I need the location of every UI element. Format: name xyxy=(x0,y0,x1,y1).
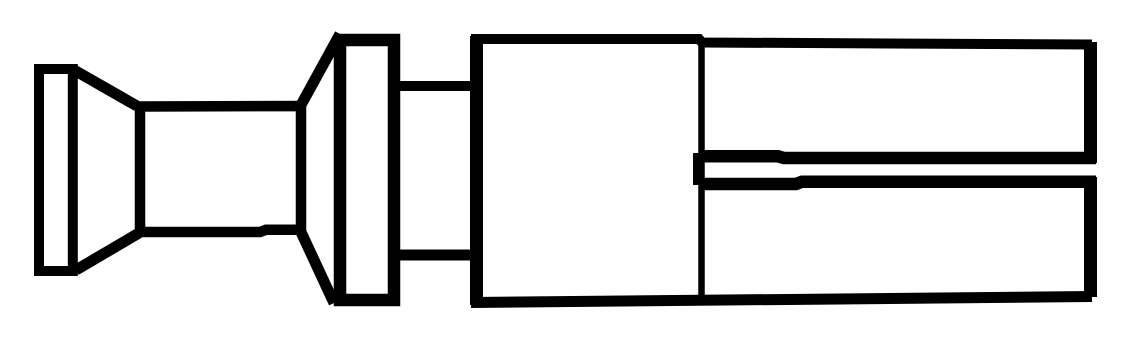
collar cone top edge xyxy=(301,34,340,105)
body top edge xyxy=(471,39,1092,45)
internal divider line xyxy=(698,40,705,301)
body right edge upper segment xyxy=(1084,42,1097,163)
collar-to-body neck bottom edge xyxy=(394,250,477,261)
head cone bottom edge xyxy=(76,233,139,270)
head cap rectangle xyxy=(39,69,73,271)
body right edge lower segment xyxy=(1084,177,1097,297)
head cone top edge xyxy=(74,70,137,106)
neck tube rectangle xyxy=(140,106,301,232)
body bottom edge xyxy=(471,297,1092,303)
body left edge xyxy=(470,36,483,305)
slot bottom line xyxy=(700,182,1096,184)
slot left-end notch tab xyxy=(693,153,705,185)
collar-to-body neck top edge xyxy=(394,81,477,91)
collar cone bottom edge xyxy=(301,232,334,303)
collar tall rectangle xyxy=(340,40,394,300)
slot top line xyxy=(700,156,1096,158)
